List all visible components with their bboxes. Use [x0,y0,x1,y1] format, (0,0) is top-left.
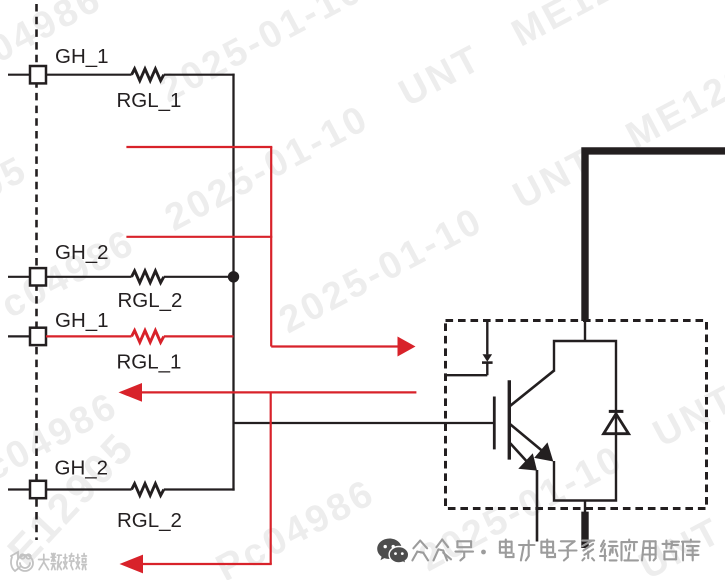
wire row4 left [46,488,132,490]
svg-text:GH_2: GH_2 [55,241,109,264]
red sense net 1 horizontal to module [271,345,398,347]
wire row2 left [46,276,132,278]
svg-text:05: 05 [0,148,35,208]
emitter terminal thin lead [584,501,586,515]
resistor RGL_2 (row2) [132,271,164,283]
gate clamp diode wire bottom [486,363,488,376]
svg-text:RGL_2: RGL_2 [117,509,182,532]
wire stub row4 [8,488,31,490]
connector pin row1 [30,66,46,83]
wire row1 left [46,74,132,76]
resistor RGL_2 (row4) [132,484,164,496]
svg-text:RGL_1: RGL_1 [117,89,182,112]
red sense net 1 lower tap [126,236,272,238]
collector node wire [554,341,616,501]
IGBT emitter diagonal main [510,424,544,452]
red sense net 2 vertical [270,392,272,564]
svg-text:GH_2: GH_2 [55,457,109,480]
collector terminal thin lead [584,321,586,342]
svg-text:GH_1: GH_1 [55,45,109,68]
resistor RGL_1 (row1) [132,69,164,81]
svg-text:RGL_2: RGL_2 [118,289,183,312]
wechat logo icon [377,539,409,564]
red sense net 2 lower line [141,563,272,565]
gate clamp wire to left border [446,374,487,376]
svg-text:GH_1: GH_1 [55,309,109,332]
red arrow left lower [120,555,144,574]
watermark logo icon (camera mark) [11,552,33,571]
dashed connector rail [35,4,38,540]
gate clamp diode wire top [486,322,488,355]
wire row3 left (red) [46,335,132,337]
red sense net 1 upper tap [126,146,272,148]
connector pin row2 [30,268,46,285]
junction dot [228,271,239,282]
IGBT Q1 body bar [508,380,511,459]
gate clamp diode D2 [483,354,493,362]
wire row4 right [164,488,235,490]
svg-text:RGL_1: RGL_1 [117,351,182,374]
IGBT Q1 gate bar [493,397,496,450]
IGBT emitter diagonal aux [510,443,528,463]
red sense net 1 vertical [270,147,272,347]
footer caption: 公众号·电力电子系统应用智库 (drawn glyphs) [412,540,699,561]
gate drive wire to module [234,422,495,424]
red arrow right [398,337,416,357]
gate bus wire (vertical) [232,74,234,491]
footer middle dot [481,550,486,555]
red arrow left upper [119,383,143,402]
kelvin emitter wire [536,470,539,542]
wire row1 right [164,74,235,76]
red sense net 2 upper line [140,391,416,393]
collector terminal thick wire [585,151,725,321]
module dashed box U1 [446,321,707,509]
connector pin row3 [30,328,46,345]
wire stub row3 [8,335,31,337]
IGBT collector diagonal [510,370,554,406]
wire stub row1 [8,74,30,76]
watermark logo 大数跨境 [39,554,87,570]
freewheel diode D1 cathode bar [609,410,624,413]
wire row2 right [164,276,234,278]
svg-text:2025-01-10 UNT ME12905: 2025-01-10 UNT ME12905 [273,34,725,342]
wire stub row2 [8,276,31,278]
emitter arrow aux [518,453,537,470]
connector pin row4 [30,481,46,498]
emitter terminal thick wire [581,512,588,548]
svg-text:2025-01-10: 2025-01-10 [153,0,371,111]
freewheel diode D1 [604,414,629,434]
wire row3 right (red) [164,335,234,337]
resistor RGL_1 (row3, red) [132,331,164,343]
emitter arrow main [534,442,553,461]
